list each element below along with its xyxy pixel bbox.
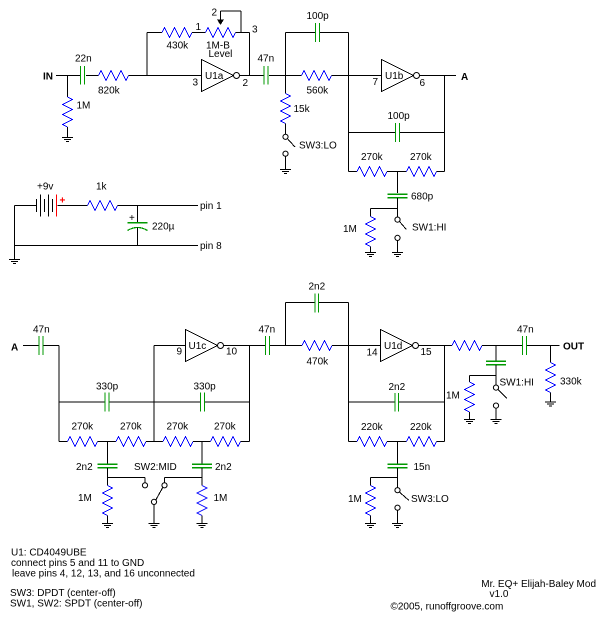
wire U1c out (224, 345, 266, 347)
capacitor 2n2 right (192, 464, 212, 468)
resistor 220k b (407, 437, 437, 447)
wire SW2 left contact stub (144, 478, 146, 483)
svg-text:A: A (461, 72, 468, 83)
wire 1M stage4 bottom ground (370, 516, 372, 524)
resistor 1M stage4 bottom (366, 486, 376, 516)
wire rail2 100p lower right (400, 132, 445, 134)
wire 15k to SW3 (285, 124, 287, 135)
ground SW2 (149, 524, 160, 528)
wire U1a out (240, 75, 265, 77)
wire stage2 mid vertical (348, 33, 350, 172)
svg-text:270k: 270k (214, 422, 237, 433)
wire node IN junction down (67, 76, 69, 98)
wire 2n2 left to row (108, 468, 146, 478)
svg-text:270k: 270k (120, 422, 143, 433)
capacitor 47n output (523, 336, 527, 355)
resistor 1k (88, 201, 118, 211)
svg-text:220k: 220k (410, 422, 433, 433)
wire rail2 100p lower left (349, 132, 396, 134)
wire 1M to ground (67, 127, 69, 137)
svg-text:2n2: 2n2 (309, 282, 326, 293)
wire rail to 430k (147, 32, 162, 34)
svg-text:6: 6 (420, 78, 426, 89)
ground 1M bottom-right (197, 524, 208, 528)
svg-text:220µ: 220µ (152, 222, 175, 233)
svg-text:A: A (11, 343, 18, 354)
svg-text:pin 8: pin 8 (200, 241, 222, 252)
svg-text:3: 3 (193, 78, 199, 89)
svg-text:560k: 560k (307, 86, 330, 97)
resistor 430k (162, 28, 192, 38)
svg-text:pin 1: pin 1 (200, 201, 222, 212)
wire rail 330p seg2 (110, 401, 201, 403)
wire out resistor to 47n (482, 345, 522, 347)
svg-text:47n: 47n (517, 325, 534, 336)
wire rail 270k seg b (98, 441, 117, 443)
svg-text:connect pins 5 and 11 to GND: connect pins 5 and 11 to GND (11, 558, 144, 569)
svg-text:1: 1 (196, 22, 202, 33)
capacitor 330p a (105, 393, 109, 412)
resistor 820k (99, 71, 129, 81)
switch SW1 HI stage4 (495, 376, 497, 386)
wire bottom rail pin8 (15, 245, 199, 247)
svg-text:IN: IN (43, 72, 53, 83)
resistor 1M stage4 out (465, 382, 475, 412)
wire rail 330p seg1 (59, 401, 105, 403)
capacitor 22n (81, 66, 85, 85)
wire rail 220k stub a (349, 441, 358, 443)
wire 1M stage2 stub (370, 209, 372, 217)
switch SW1 HI stage2 (397, 209, 399, 218)
ground SW3 stage4 (392, 524, 403, 528)
resistor 270k stage3 c (163, 437, 193, 447)
svg-text:270k: 270k (72, 422, 95, 433)
wire U1c input vertical (153, 346, 155, 442)
resistor output unlabeled (452, 341, 482, 351)
pot wiper arrow (220, 11, 222, 20)
ground 1M stage2 (365, 253, 376, 257)
svg-text:22n: 22n (75, 54, 92, 65)
svg-text:2: 2 (212, 8, 218, 19)
svg-text:1M: 1M (78, 493, 92, 504)
resistor 270k stage2 b (407, 167, 437, 177)
wire junction down to 15n (397, 442, 399, 464)
wire 47n to stage2 (269, 75, 302, 77)
svg-text:270k: 270k (361, 152, 384, 163)
capacitor 680p (388, 194, 408, 198)
svg-text:1M: 1M (446, 391, 460, 402)
capacitor 47n stage3 in (39, 336, 43, 355)
svg-text:1M: 1M (343, 224, 357, 235)
wire rail 220k stub c (437, 441, 445, 443)
capacitor 47n stage1 out (264, 66, 268, 85)
wire A node vertical (58, 346, 60, 442)
wire 820k to U1a input (129, 75, 202, 77)
op-amp U1d (381, 330, 413, 362)
resistor 560k (302, 71, 332, 81)
svg-text:Level: Level (209, 49, 233, 60)
wire 47n to corner (44, 345, 60, 347)
resistor 330k (546, 363, 556, 393)
wire rail 270k seg c (146, 441, 163, 443)
wire 470k to U1d (332, 345, 381, 347)
capacitor 2n2 lower (395, 393, 399, 412)
resistor 470k (302, 341, 332, 351)
wire stage4 left vertical (285, 303, 287, 346)
capacitor 100p lower (396, 123, 400, 142)
ground 1M stage4 bottom (365, 524, 376, 528)
capacitor 100p top (316, 23, 320, 42)
ground 330k (545, 402, 556, 406)
capacitor 15n (388, 464, 408, 468)
svg-text:U1d: U1d (384, 341, 402, 352)
wire 430k to pot (192, 32, 206, 34)
svg-text:SW1:HI: SW1:HI (412, 223, 446, 234)
wire SW2 pivot to ground (153, 505, 155, 524)
svg-text:220k: 220k (361, 422, 384, 433)
resistor 1M input (63, 97, 73, 127)
wire 1M out stub (469, 376, 471, 383)
svg-text:270k: 270k (410, 152, 433, 163)
svg-text:+: + (60, 196, 66, 207)
wire wiper top rail (221, 10, 242, 12)
resistor 1M stage2 (366, 217, 376, 247)
wire 1M br to ground (201, 516, 203, 524)
svg-text:10: 10 (226, 347, 238, 358)
wire C1 to R 820k (86, 75, 99, 77)
svg-text:15n: 15n (414, 462, 431, 473)
pot 1M-B element (206, 28, 236, 38)
ground SW1 stage2 (392, 253, 403, 257)
wire rail 330p seg3 (205, 401, 250, 403)
ground battery (9, 260, 20, 264)
svg-text:1k: 1k (96, 182, 108, 193)
wire 1k to pin1 (118, 205, 199, 207)
wire wiper down to pot lug3 (240, 11, 242, 33)
svg-text:SW3:LO: SW3:LO (299, 141, 337, 152)
wire 680p to junction row (371, 198, 398, 209)
wire SW3 stage4 to ground (397, 510, 399, 523)
wire 1M bl to ground (107, 516, 109, 524)
svg-text:+: + (129, 213, 135, 224)
resistor 270k stage2 a (357, 167, 387, 177)
wire OUT node down (550, 346, 552, 363)
wire 47n to OUT (527, 345, 560, 347)
svg-text:leave pins 4, 12, 13, and 16 u: leave pins 4, 12, 13, and 16 unconnected (12, 569, 195, 580)
svg-text:2n2: 2n2 (76, 462, 93, 473)
resistor 1M bottom-left (103, 486, 113, 516)
capacitor 330p b (201, 393, 205, 412)
wire 15n to junction row (371, 468, 398, 478)
wire junction down to 680p (397, 172, 399, 194)
wire 2n2 left vertical top (107, 442, 109, 464)
ground SW3 stage2 (280, 170, 291, 174)
wire rail 220k mid (387, 441, 407, 443)
switch SW3 LO stage4 (397, 478, 399, 488)
op-amp U1b (382, 60, 414, 92)
wire 1M stage2 to ground (370, 247, 372, 253)
wire 1M br stub (201, 478, 203, 486)
svg-text:15k: 15k (294, 104, 311, 115)
svg-text:U1b: U1b (385, 71, 404, 82)
svg-text:470k: 470k (307, 357, 330, 368)
wire 220u to rail (137, 228, 139, 246)
wire 2n2 right vertical top (201, 442, 203, 464)
svg-text:U1: CD4049UBE: U1: CD4049UBE (11, 548, 87, 559)
svg-text:SW1, SW2: SPDT (center-off): SW1, SW2: SPDT (center-off) (10, 599, 142, 610)
wire SW1 stage4 ground (495, 408, 497, 419)
resistor 270k stage3 d (211, 437, 241, 447)
wire rail 2n2 top left (286, 302, 315, 304)
battery B1 (37, 195, 53, 217)
wire SW2 right contact stub (164, 478, 166, 483)
svg-text:47n: 47n (33, 325, 50, 336)
resistor 270k stage3 a (68, 437, 98, 447)
wire 2n2 right to row (165, 468, 203, 478)
ground input 1M (62, 138, 73, 142)
wire into U1c (154, 345, 186, 347)
op-amp U1c (186, 330, 218, 362)
svg-text:14: 14 (367, 348, 379, 359)
svg-text:v1.0: v1.0 (490, 589, 509, 600)
wire A to 47n (23, 345, 39, 347)
op-amp U1a (202, 60, 234, 92)
ground 1M bottom-left (102, 524, 113, 528)
svg-text:2n2: 2n2 (215, 462, 232, 473)
wire U1d out (419, 345, 453, 347)
capacitor 220u polarized (128, 222, 148, 224)
wire 1M out ground (469, 412, 471, 420)
resistor 1M bottom-right (197, 486, 207, 516)
wire rail 2n2 lower left (349, 401, 395, 403)
wire rail3 left stub (349, 171, 358, 173)
wire feedback left vertical (146, 33, 148, 76)
svg-text:1M: 1M (77, 101, 91, 112)
svg-text:430k: 430k (167, 41, 190, 52)
svg-text:680p: 680p (411, 192, 434, 203)
wire rail 270k stub a (59, 441, 68, 443)
wire stage2 right vertical (444, 76, 446, 172)
svg-text:+9v: +9v (37, 182, 53, 193)
wire SW3 to ground (285, 156, 287, 169)
wire pot to output node (236, 32, 250, 34)
wire battery left (15, 205, 37, 207)
svg-text:SW1:HI: SW1:HI (500, 378, 534, 389)
svg-text:2n2: 2n2 (389, 382, 406, 393)
wire 560k to U1b (332, 75, 382, 77)
svg-text:U1c: U1c (189, 341, 207, 352)
wire rail 100p left (286, 32, 316, 34)
ground 1M stage4 out (464, 420, 475, 424)
svg-text:330p: 330p (96, 382, 119, 393)
svg-text:OUT: OUT (563, 342, 584, 353)
wire rail 270k seg d (193, 441, 211, 443)
wire 47n to 470k (270, 345, 302, 347)
svg-text:©2005, runoffgroove.com: ©2005, runoffgroove.com (391, 602, 504, 613)
svg-text:3: 3 (252, 25, 258, 36)
svg-text:47n: 47n (258, 54, 275, 65)
svg-text:7: 7 (373, 77, 379, 88)
svg-text:15: 15 (421, 347, 433, 358)
capacitor SW1 series (486, 361, 506, 365)
wire feedback right vertical (249, 33, 251, 76)
resistor 220k a (357, 437, 387, 447)
svg-text:2: 2 (243, 78, 249, 89)
svg-text:820k: 820k (98, 86, 121, 97)
svg-text:330k: 330k (560, 377, 583, 388)
switch SW3 LO stage2 (283, 134, 288, 139)
wire rail 100p right (320, 32, 349, 34)
svg-text:SW3:LO: SW3:LO (411, 494, 449, 505)
svg-text:9: 9 (177, 347, 183, 358)
wire cap to junction row (470, 365, 497, 376)
svg-text:SW3: DPDT (center-off): SW3: DPDT (center-off) (10, 588, 116, 599)
svg-text:100p: 100p (307, 11, 330, 22)
wire 1M stage4 bottom stub (370, 478, 372, 486)
wire U1b out to A (420, 75, 457, 77)
wire 1M bl stub (107, 478, 109, 486)
wire stage4 right vertical (444, 346, 446, 442)
wire battery to 1k (58, 205, 88, 207)
wire battery left vertical (14, 206, 16, 260)
wire out node down to cap (495, 346, 497, 361)
svg-text:1M: 1M (348, 494, 362, 505)
capacitor 47n stage3 out (266, 336, 270, 355)
resistor 15k (281, 94, 291, 124)
wire rail3 right stub (437, 171, 445, 173)
svg-text:270k: 270k (167, 422, 190, 433)
svg-text:SW2:MID: SW2:MID (134, 462, 177, 473)
wire 330k ground (550, 393, 552, 403)
svg-text:1M: 1M (214, 493, 228, 504)
wire stage2 left vertical (285, 33, 287, 94)
wire U1c out vertical (249, 346, 251, 442)
svg-text:100p: 100p (388, 111, 411, 122)
capacitor 2n2 top (315, 294, 319, 313)
resistor 270k stage3 b (116, 437, 146, 447)
wire rail 270k stub e (241, 441, 250, 443)
svg-text:47n: 47n (259, 325, 276, 336)
capacitor 2n2 left (98, 464, 118, 468)
svg-text:330p: 330p (194, 382, 217, 393)
wire rail 2n2 top right (319, 302, 349, 304)
wire rail 2n2 lower right (399, 401, 445, 403)
wire junction down to 220u (137, 206, 139, 223)
wire stage4 mid vertical (348, 303, 350, 442)
wire SW1 to ground (397, 241, 399, 253)
wire IN to C1 (56, 75, 80, 77)
switch SW2 MID (142, 483, 147, 488)
svg-text:U1a: U1a (205, 71, 224, 82)
wire rail3 mid (387, 171, 407, 173)
ground SW1 stage4 (491, 420, 502, 424)
